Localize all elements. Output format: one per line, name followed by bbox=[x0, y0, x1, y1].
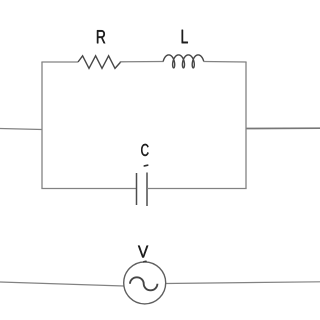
wire top edge before resistor bbox=[41, 61, 78, 63]
wire left lead into tank circuit bbox=[0, 129, 42, 130]
AC source sine wave bbox=[130, 277, 157, 290]
wire source left lead bbox=[0, 282, 124, 286]
capacitor C right plate bbox=[146, 173, 148, 207]
wire source right lead bbox=[166, 282, 320, 284]
label R bbox=[97, 30, 105, 43]
label C bbox=[141, 144, 148, 156]
resistor R bbox=[78, 56, 121, 69]
wire right lead out of tank circuit bbox=[246, 127, 320, 129]
wire top edge between resistor and inductor bbox=[120, 61, 164, 63]
wire bottom edge left of capacitor bbox=[41, 188, 136, 190]
AC source V circle bbox=[124, 262, 166, 304]
inductor L bbox=[163, 55, 204, 68]
label L bbox=[182, 30, 188, 43]
wire left edge of loop bbox=[41, 62, 43, 189]
label V bbox=[138, 246, 148, 258]
stray tick at top of source circle bbox=[144, 260, 146, 263]
wire right edge of loop bbox=[245, 62, 247, 189]
wire bottom edge right of capacitor bbox=[147, 188, 247, 190]
stray tick above capacitor bbox=[144, 164, 147, 167]
wire top edge after inductor bbox=[204, 61, 247, 64]
capacitor C left plate bbox=[136, 173, 138, 205]
